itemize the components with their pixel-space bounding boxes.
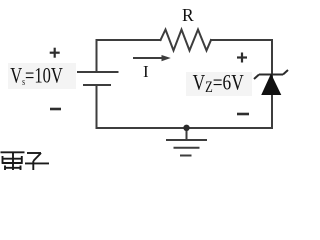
svg-text:I: I [143,62,149,81]
svg-text:Vs=10V: Vs=10V [10,64,63,88]
svg-text:VZ=6V: VZ=6V [193,71,245,97]
svg-text:R: R [182,5,194,25]
